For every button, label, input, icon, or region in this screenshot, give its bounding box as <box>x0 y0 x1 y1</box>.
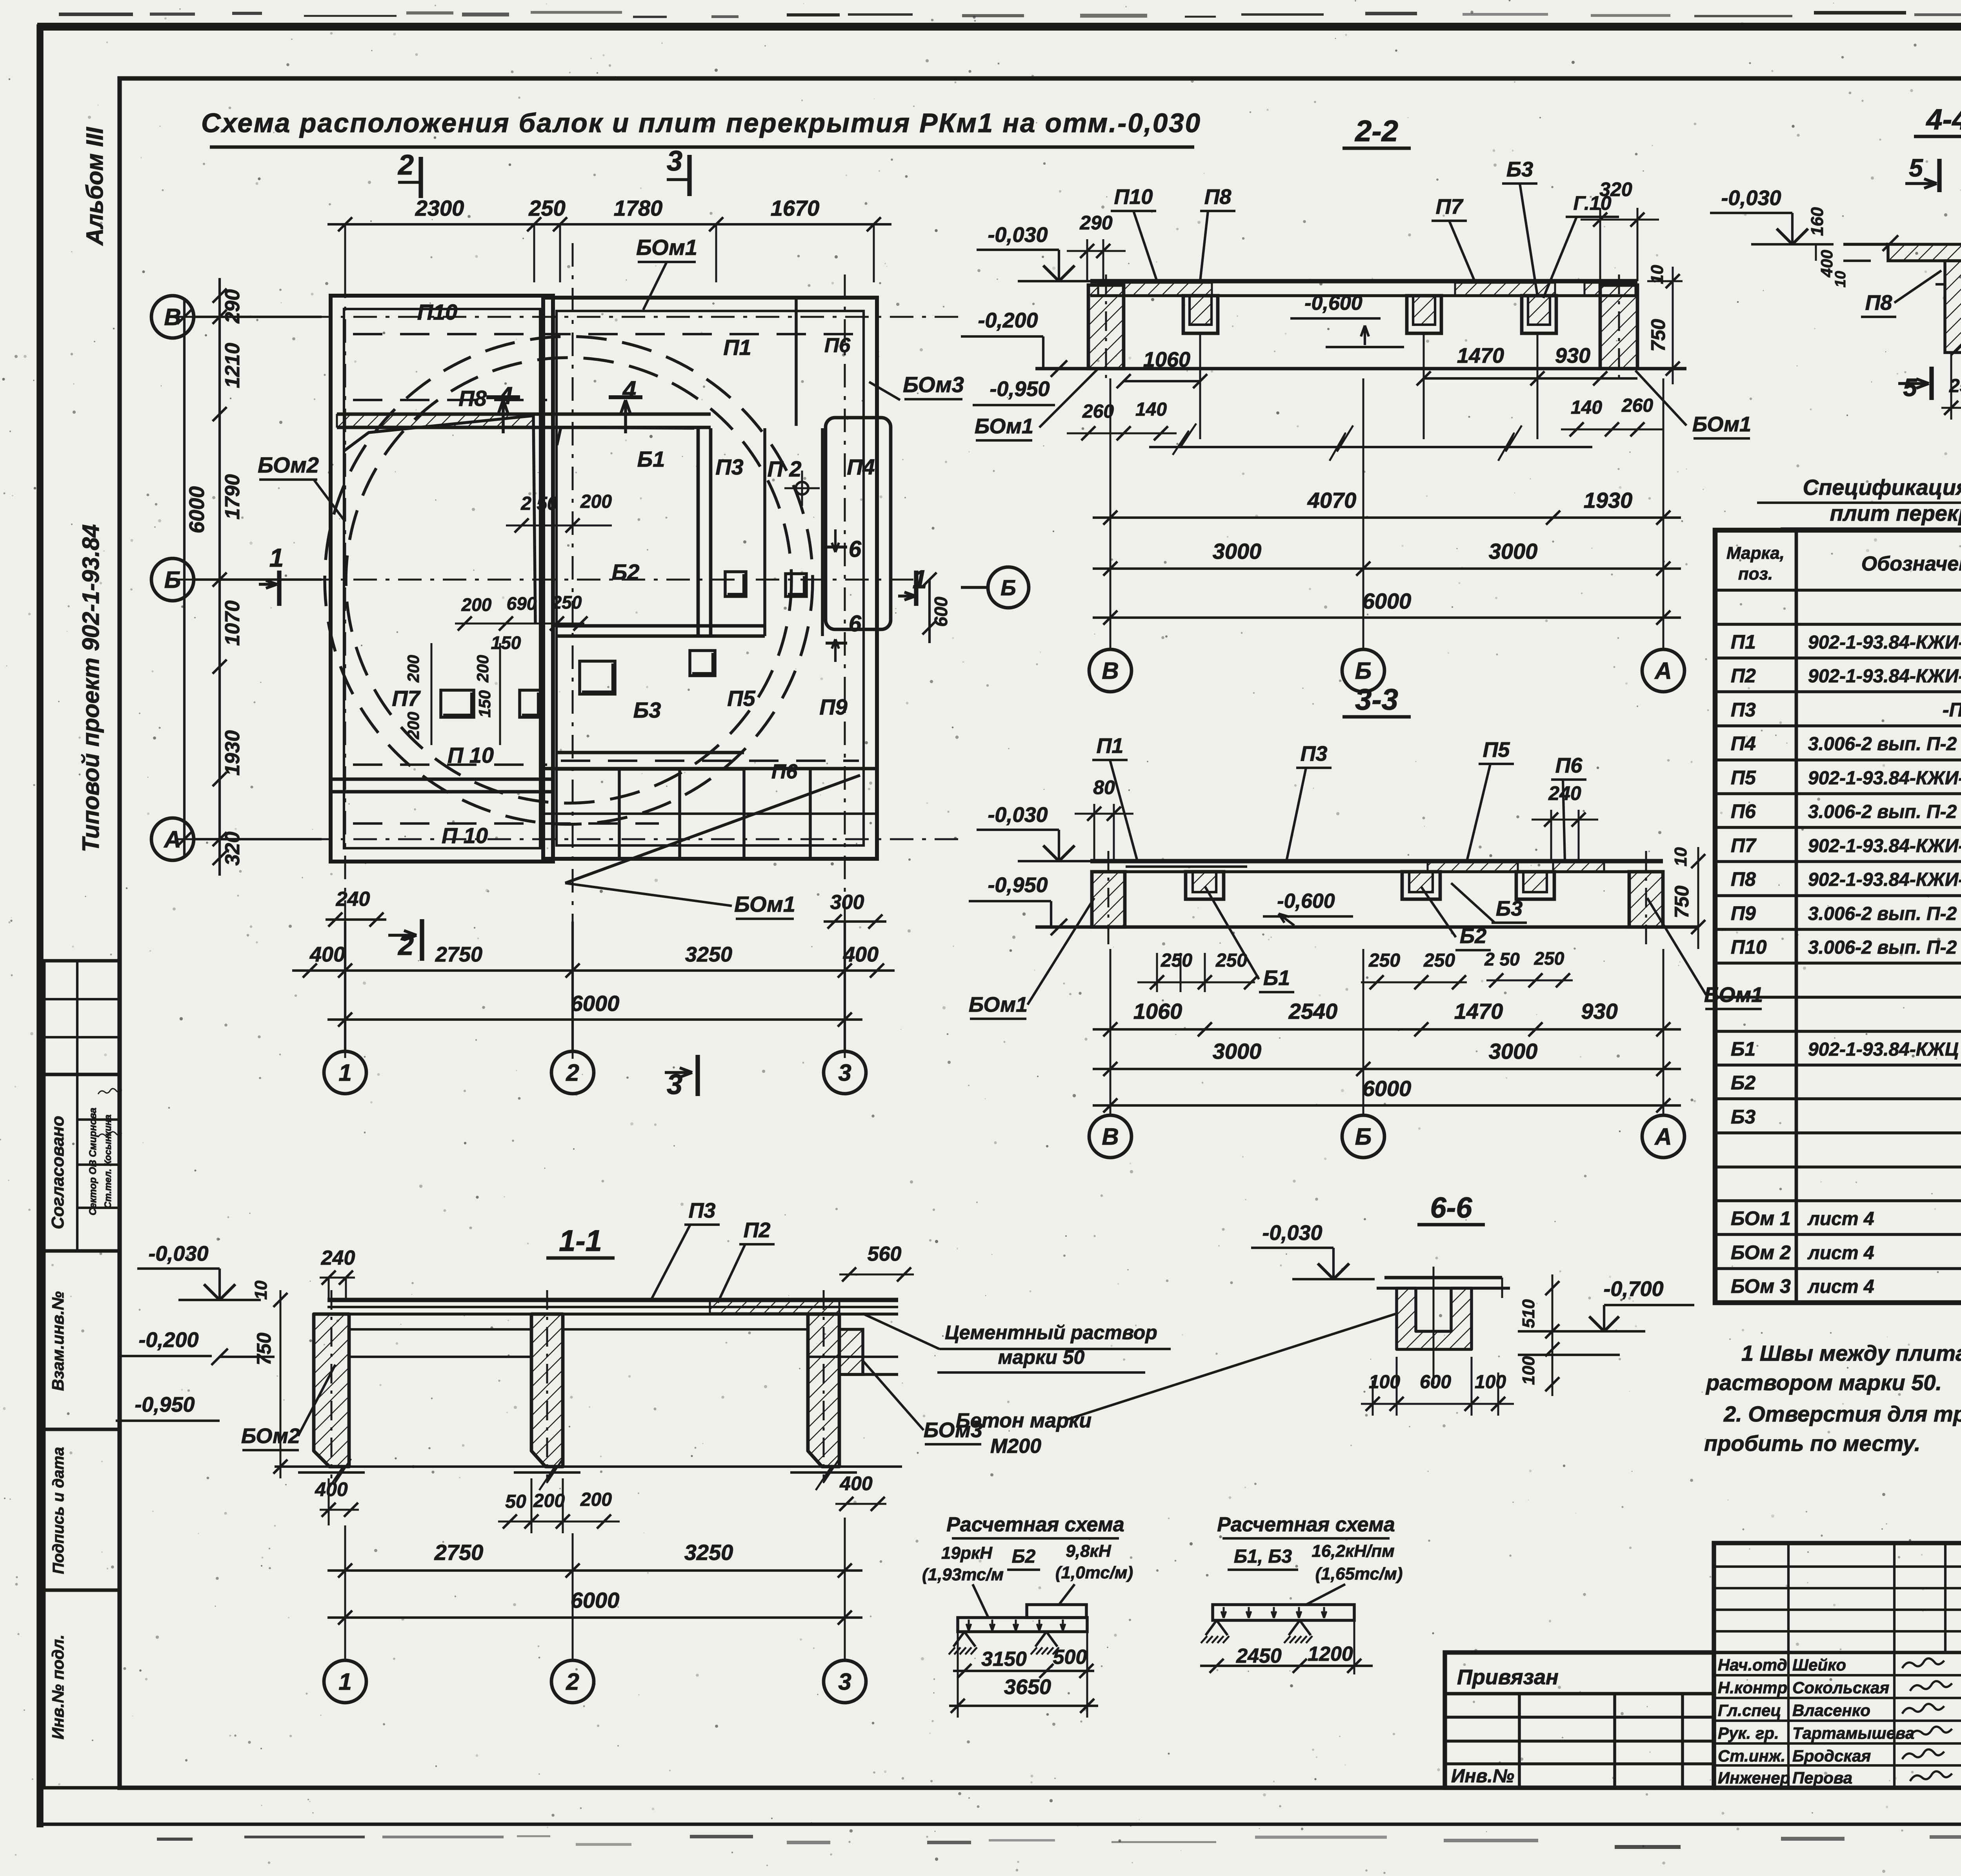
svg-text:плит перекрытия на отм. 0,000: плит перекрытия на отм. 0,000 <box>1830 501 1961 525</box>
svg-text:БОм 1: БОм 1 <box>1731 1207 1791 1229</box>
svg-text:Шейко: Шейко <box>1792 1656 1846 1674</box>
svg-text:2750: 2750 <box>435 943 482 966</box>
svg-text:6000: 6000 <box>1363 1076 1412 1101</box>
svg-text:Б3: Б3 <box>1506 158 1533 181</box>
svg-text:250: 250 <box>1534 948 1564 969</box>
svg-text:Н.контр: Н.контр <box>1718 1678 1787 1697</box>
svg-text:Нач.отд: Нач.отд <box>1718 1656 1787 1674</box>
svg-text:320: 320 <box>221 832 244 866</box>
svg-text:П4: П4 <box>1731 733 1756 754</box>
svg-text:6000: 6000 <box>1363 589 1412 613</box>
svg-text:П8: П8 <box>458 386 487 411</box>
svg-text:6: 6 <box>849 536 862 562</box>
svg-text:Б: Б <box>1355 658 1372 684</box>
svg-text:П2: П2 <box>744 1218 771 1242</box>
svg-text:290: 290 <box>1079 212 1113 234</box>
svg-text:3000: 3000 <box>1489 1039 1538 1063</box>
svg-text:50: 50 <box>505 1491 526 1512</box>
svg-text:П9: П9 <box>819 694 847 719</box>
svg-text:М200: М200 <box>990 1435 1041 1458</box>
svg-text:3650: 3650 <box>1004 1675 1051 1699</box>
svg-text:Бетон марки: Бетон марки <box>956 1409 1091 1432</box>
svg-text:3.006-2 вып. П-2: 3.006-2 вып. П-2 <box>1808 802 1957 822</box>
svg-text:Типовой проект 902-1-93.84: Типовой проект 902-1-93.84 <box>78 524 104 852</box>
svg-text:П5: П5 <box>1731 767 1756 789</box>
svg-text:БОм1: БОм1 <box>969 993 1028 1016</box>
svg-text:П1: П1 <box>1097 734 1124 758</box>
svg-text:Сокольская: Сокольская <box>1792 1678 1889 1697</box>
svg-text:2. Отверстия для трубопровод: 2. Отверстия для трубопроводов ф 100 (вк… <box>1723 1402 1961 1426</box>
svg-text:-0,200: -0,200 <box>138 1328 198 1352</box>
svg-text:250: 250 <box>551 592 582 613</box>
svg-text:140: 140 <box>1571 397 1602 418</box>
svg-text:3150: 3150 <box>981 1648 1027 1671</box>
svg-text:пробить по месту.: пробить по месту. <box>1704 1431 1920 1456</box>
svg-text:Инв.№: Инв.№ <box>1451 1766 1514 1787</box>
svg-text:140: 140 <box>1135 399 1167 420</box>
svg-text:-0,030: -0,030 <box>988 803 1048 827</box>
svg-text:3000: 3000 <box>1213 539 1262 564</box>
svg-text:16,2кН/пм: 16,2кН/пм <box>1312 1542 1394 1561</box>
svg-text:150: 150 <box>475 690 494 718</box>
svg-text:260: 260 <box>1621 395 1653 416</box>
svg-text:П8: П8 <box>1204 185 1232 209</box>
svg-text:200: 200 <box>461 594 492 615</box>
svg-text:поз.: поз. <box>1738 564 1773 584</box>
svg-text:100: 100 <box>1475 1372 1506 1392</box>
svg-text:1: 1 <box>269 543 284 572</box>
svg-text:3: 3 <box>667 145 682 177</box>
svg-text:(1,0тс/м): (1,0тс/м) <box>1055 1563 1133 1582</box>
svg-text:250: 250 <box>528 196 565 220</box>
svg-text:400: 400 <box>843 943 879 966</box>
svg-text:320: 320 <box>1599 178 1632 200</box>
svg-text:200: 200 <box>473 655 492 683</box>
svg-text:400: 400 <box>315 1478 348 1500</box>
svg-text:Б3: Б3 <box>1731 1106 1755 1128</box>
svg-text:200: 200 <box>404 655 422 683</box>
svg-text:930: 930 <box>1555 344 1590 367</box>
svg-text:290: 290 <box>221 289 244 324</box>
svg-text:Инженер: Инженер <box>1718 1769 1790 1787</box>
svg-text:Согласовано: Согласовано <box>48 1116 67 1229</box>
svg-text:П7: П7 <box>392 686 421 711</box>
svg-text:3: 3 <box>838 1669 851 1695</box>
svg-text:Схема расположения балок и пли: Схема расположения балок и плит перекрыт… <box>201 108 1201 138</box>
svg-text:2 50: 2 50 <box>1484 949 1520 969</box>
svg-text:200: 200 <box>404 712 422 740</box>
svg-text:2750: 2750 <box>434 1540 484 1565</box>
svg-text:БОм2: БОм2 <box>258 453 319 477</box>
svg-text:Рук. гр.: Рук. гр. <box>1718 1724 1779 1742</box>
svg-text:Б2: Б2 <box>1731 1072 1755 1094</box>
svg-text:500: 500 <box>1053 1646 1087 1669</box>
svg-text:БОм1: БОм1 <box>1692 413 1751 436</box>
svg-text:-0,600: -0,600 <box>1304 292 1363 314</box>
svg-text:Марка,: Марка, <box>1726 544 1785 563</box>
svg-text:510: 510 <box>1519 1299 1538 1328</box>
svg-text:П5: П5 <box>727 686 755 711</box>
svg-text:300: 300 <box>830 891 864 914</box>
svg-text:А: А <box>1654 658 1672 684</box>
svg-text:раствором марки 50.: раствором марки 50. <box>1705 1370 1942 1395</box>
svg-text:902-1-93.84-КЖИ-П23д-3б-1: 902-1-93.84-КЖИ-П23д-3б-1 <box>1808 836 1961 856</box>
svg-text:10: 10 <box>1671 847 1690 866</box>
svg-text:3.006-2 вып. П-2: 3.006-2 вып. П-2 <box>1808 734 1957 754</box>
svg-text:902-1-93.84-КЖИ-П13-11б-1: 902-1-93.84-КЖИ-П13-11б-1 <box>1808 768 1961 789</box>
svg-text:250: 250 <box>1423 950 1455 971</box>
svg-text:-0,030: -0,030 <box>1262 1221 1322 1245</box>
svg-text:3.006-2 вып. П-2: 3.006-2 вып. П-2 <box>1808 903 1957 924</box>
svg-text:930: 930 <box>1581 999 1617 1023</box>
svg-text:Ст.инж.: Ст.инж. <box>1718 1747 1785 1765</box>
svg-text:Привязан: Привязан <box>1457 1665 1559 1689</box>
svg-text:1: 1 <box>338 1060 351 1086</box>
svg-text:9,8кН: 9,8кН <box>1066 1542 1111 1561</box>
svg-text:1200: 1200 <box>1308 1643 1353 1665</box>
svg-text:(1,65тс/м): (1,65тс/м) <box>1315 1564 1403 1583</box>
svg-text:160: 160 <box>1808 207 1827 236</box>
svg-text:200: 200 <box>533 1491 565 1511</box>
svg-text:2300: 2300 <box>415 196 464 220</box>
svg-text:П6: П6 <box>771 760 798 783</box>
svg-text:Б3: Б3 <box>1496 897 1523 920</box>
svg-text:560: 560 <box>868 1243 902 1265</box>
svg-text:750: 750 <box>253 1332 275 1365</box>
svg-text:Обозначение: Обозначение <box>1861 553 1961 575</box>
svg-text:200: 200 <box>580 1489 612 1510</box>
svg-text:2540: 2540 <box>1288 999 1338 1023</box>
svg-text:250: 250 <box>1161 950 1192 971</box>
svg-text:Ст.тел. Косынкина: Ст.тел. Косынкина <box>103 1114 113 1208</box>
svg-text:750: 750 <box>1671 885 1693 918</box>
svg-text:БОм3: БОм3 <box>903 372 964 397</box>
svg-text:Перова: Перова <box>1792 1769 1852 1787</box>
svg-text:(1,93тс/м: (1,93тс/м <box>922 1565 1004 1584</box>
svg-text:690: 690 <box>507 593 537 614</box>
svg-text:-0,700: -0,700 <box>1603 1277 1663 1301</box>
svg-text:Б: Б <box>164 567 181 593</box>
svg-text:БОм 3: БОм 3 <box>1731 1275 1791 1297</box>
svg-text:3250: 3250 <box>684 1540 733 1565</box>
svg-text:5: 5 <box>1903 373 1917 402</box>
svg-text:3: 3 <box>838 1060 851 1086</box>
svg-text:Власенко: Власенко <box>1792 1701 1870 1720</box>
svg-text:-0,950: -0,950 <box>135 1393 195 1416</box>
svg-text:Расчетная схема: Расчетная схема <box>946 1513 1124 1536</box>
svg-text:1930: 1930 <box>221 730 244 776</box>
svg-text:В: В <box>1102 658 1119 684</box>
svg-text:-0,030: -0,030 <box>148 1242 208 1265</box>
svg-text:750: 750 <box>1647 319 1669 352</box>
svg-text:Б: Б <box>1355 1123 1372 1150</box>
svg-text:П3: П3 <box>1731 699 1756 721</box>
svg-text:-0,600: -0,600 <box>1277 890 1335 913</box>
svg-text:П6: П6 <box>1731 800 1756 822</box>
svg-text:200: 200 <box>580 491 612 512</box>
svg-text:БОм1: БОм1 <box>734 892 795 916</box>
svg-text:П7: П7 <box>1731 834 1757 856</box>
svg-text:Подпись и дата: Подпись и дата <box>50 1447 67 1574</box>
svg-text:лист 4: лист 4 <box>1807 1276 1874 1297</box>
svg-text:902-1-93.84-КЖИ-П7-5б-1: 902-1-93.84-КЖИ-П7-5б-1 <box>1808 632 1961 653</box>
svg-text:Б1: Б1 <box>1263 966 1290 990</box>
svg-text:6000: 6000 <box>571 991 620 1016</box>
svg-text:П7: П7 <box>1436 195 1464 218</box>
svg-text:Б1: Б1 <box>1731 1038 1755 1060</box>
svg-text:6000: 6000 <box>571 1588 620 1612</box>
svg-text:4-4: 4-4 <box>1926 103 1961 136</box>
svg-text:П10: П10 <box>1114 185 1153 209</box>
svg-text:Спецификация к схеме расположе: Спецификация к схеме расположения балок … <box>1803 475 1961 500</box>
svg-text:П3: П3 <box>689 1199 716 1222</box>
svg-text:5: 5 <box>1909 154 1923 182</box>
svg-text:400: 400 <box>309 943 345 966</box>
svg-text:Б3: Б3 <box>633 698 661 722</box>
svg-text:Гл.спец: Гл.спец <box>1718 1701 1781 1720</box>
svg-text:3000: 3000 <box>1213 1039 1262 1063</box>
svg-text:1210: 1210 <box>221 343 244 388</box>
svg-text:Цементный раствор: Цементный раствор <box>945 1322 1157 1343</box>
svg-text:240: 240 <box>1548 782 1581 804</box>
svg-text:Б: Б <box>1001 575 1016 600</box>
svg-text:902-1-93.84-КЖЦ - Б1: 902-1-93.84-КЖЦ - Б1 <box>1808 1039 1961 1060</box>
svg-text:1060: 1060 <box>1133 999 1182 1023</box>
svg-text:П 2: П 2 <box>768 456 802 481</box>
svg-text:2: 2 <box>566 1060 579 1086</box>
svg-text:БОм2: БОм2 <box>241 1424 300 1448</box>
svg-text:Б2: Б2 <box>1460 924 1486 948</box>
svg-text:6: 6 <box>849 611 862 636</box>
svg-text:Альбом III: Альбом III <box>82 127 108 246</box>
svg-text:2 50: 2 50 <box>520 493 558 514</box>
svg-text:А: А <box>163 826 181 853</box>
svg-text:-0,030: -0,030 <box>1721 186 1781 210</box>
svg-text:10: 10 <box>1832 271 1849 287</box>
svg-text:1930: 1930 <box>1584 488 1633 513</box>
svg-text:10: 10 <box>251 1280 271 1300</box>
svg-text:1780: 1780 <box>614 196 663 220</box>
svg-text:В: В <box>164 304 181 330</box>
svg-text:3.006-2 вып. П-2: 3.006-2 вып. П-2 <box>1808 937 1957 958</box>
svg-text:19ркН: 19ркН <box>941 1543 993 1563</box>
svg-text:1670: 1670 <box>771 196 820 220</box>
svg-text:П 10: П 10 <box>442 823 488 848</box>
svg-text:1470: 1470 <box>1457 344 1504 367</box>
svg-text:1-1: 1-1 <box>559 1224 602 1258</box>
svg-text:150: 150 <box>491 633 521 653</box>
svg-text:1060: 1060 <box>1143 348 1190 371</box>
svg-text:П10: П10 <box>417 300 458 324</box>
svg-text:П1: П1 <box>723 335 751 360</box>
svg-text:А: А <box>1654 1123 1672 1150</box>
svg-text:600: 600 <box>1420 1372 1451 1392</box>
svg-text:П2: П2 <box>1731 665 1756 687</box>
svg-text:4: 4 <box>622 376 636 404</box>
svg-text:П3: П3 <box>715 454 743 479</box>
svg-text:Взам.инв.№: Взам.инв.№ <box>49 1291 67 1391</box>
svg-text:1470: 1470 <box>1454 999 1503 1023</box>
svg-text:1: 1 <box>338 1669 351 1695</box>
svg-text:В: В <box>1102 1123 1119 1150</box>
svg-text:П1: П1 <box>1731 631 1756 653</box>
svg-text:П4: П4 <box>847 454 875 479</box>
svg-text:6000: 6000 <box>185 486 209 533</box>
svg-text:БОм 2: БОм 2 <box>1731 1242 1791 1263</box>
svg-text:Бродская: Бродская <box>1792 1747 1871 1765</box>
svg-text:260: 260 <box>1082 401 1114 422</box>
svg-text:Б2: Б2 <box>612 560 640 584</box>
svg-text:-0,950: -0,950 <box>990 377 1050 401</box>
svg-text:2-2: 2-2 <box>1354 115 1398 148</box>
svg-text:лист 4: лист 4 <box>1807 1243 1874 1263</box>
svg-text:-0,030: -0,030 <box>988 223 1048 247</box>
svg-text:П6: П6 <box>1555 754 1583 777</box>
svg-text:Б1, Б3: Б1, Б3 <box>1234 1546 1292 1567</box>
svg-text:Б1: Б1 <box>637 447 665 471</box>
svg-text:БОм1: БОм1 <box>975 414 1033 438</box>
svg-text:3000: 3000 <box>1489 539 1538 564</box>
svg-text:П10: П10 <box>1731 936 1767 958</box>
svg-text:2450: 2450 <box>1236 1645 1282 1667</box>
svg-text:240: 240 <box>336 888 370 911</box>
svg-text:Сектор ОВ Смирнова: Сектор ОВ Смирнова <box>87 1108 98 1216</box>
svg-text:Расчетная схема: Расчетная схема <box>1217 1513 1395 1536</box>
svg-text:Инв.№ подл.: Инв.№ подл. <box>49 1634 67 1739</box>
svg-text:100: 100 <box>1519 1356 1538 1385</box>
svg-text:4070: 4070 <box>1307 488 1357 513</box>
svg-text:-0,200: -0,200 <box>978 309 1038 332</box>
svg-text:902-1-93.84-КЖИ-П23д3б-2: 902-1-93.84-КЖИ-П23д3б-2 <box>1808 869 1961 890</box>
svg-text:240: 240 <box>321 1247 355 1269</box>
svg-text:400: 400 <box>839 1472 873 1494</box>
svg-text:П8: П8 <box>1731 868 1756 890</box>
svg-text:-0,950: -0,950 <box>988 873 1048 897</box>
svg-text:250: 250 <box>1368 950 1400 971</box>
svg-text:лист 4: лист 4 <box>1807 1209 1874 1229</box>
svg-text:Тартамышева: Тартамышева <box>1792 1724 1914 1742</box>
svg-text:902-1-93.84-КЖИ-П20д-3б-1: 902-1-93.84-КЖИ-П20д-3б-1 <box>1808 666 1961 687</box>
svg-text:6-6: 6-6 <box>1430 1191 1473 1224</box>
svg-text:П8: П8 <box>1865 291 1892 314</box>
svg-text:3250: 3250 <box>685 943 732 966</box>
svg-text:БОм1: БОм1 <box>636 235 697 260</box>
svg-text:П9: П9 <box>1731 902 1756 924</box>
svg-text:250: 250 <box>1215 950 1247 971</box>
svg-text:1790: 1790 <box>221 474 244 520</box>
svg-text:П6: П6 <box>824 334 851 357</box>
svg-text:3-3: 3-3 <box>1355 683 1398 716</box>
svg-text:2: 2 <box>397 149 414 181</box>
svg-text:1070: 1070 <box>221 600 244 646</box>
svg-text:П3: П3 <box>1301 742 1328 765</box>
svg-text:2: 2 <box>566 1669 579 1695</box>
svg-text:П5: П5 <box>1483 738 1510 762</box>
svg-text:80: 80 <box>1093 776 1115 798</box>
svg-text:-П20д-3б-1: -П20д-3б-1 <box>1943 699 1961 721</box>
svg-text:1 Швы между плитами заполни: 1 Швы между плитами заполнить цементным <box>1741 1341 1961 1365</box>
svg-text:Б2: Б2 <box>1012 1546 1036 1567</box>
